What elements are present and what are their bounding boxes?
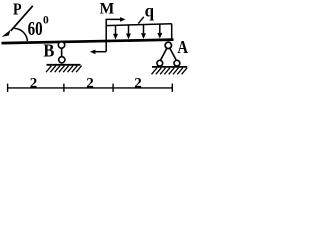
q leader tick: [138, 17, 144, 24]
dimension tick 2: [63, 84, 65, 92]
support A top hinge: [165, 42, 171, 48]
svg-text:60: 60: [28, 18, 43, 40]
dimension line: [8, 87, 173, 89]
support A hatching: [152, 68, 188, 75]
load arrow 2: [128, 25, 130, 35]
moment upper arrowhead: [120, 17, 126, 22]
support A right roller: [174, 60, 180, 66]
load arrow 4: [159, 24, 161, 34]
distributed load top line: [106, 24, 172, 26]
svg-text:P: P: [13, 0, 22, 19]
support A right leg: [170, 48, 177, 61]
support B bottom hinge: [59, 57, 65, 63]
support B top hinge: [58, 42, 64, 48]
moment couple lower arm: [92, 51, 106, 53]
dimension tick 3: [112, 84, 114, 92]
support A left leg: [160, 48, 167, 61]
svg-text:M: M: [100, 0, 115, 17]
beam: [2, 38, 174, 44]
svg-text:2: 2: [30, 76, 38, 92]
load right edge: [171, 24, 173, 39]
svg-text:2: 2: [86, 76, 94, 92]
svg-text:A: A: [177, 37, 188, 57]
support B ground line: [47, 64, 81, 66]
support B rod: [61, 48, 63, 57]
moment lower arrowhead: [90, 50, 96, 55]
force P line: [11, 6, 33, 31]
support A left roller: [157, 60, 163, 66]
svg-text:2: 2: [134, 76, 142, 92]
moment couple upper arm: [106, 19, 123, 51]
svg-text:B: B: [43, 41, 54, 61]
support A ground line: [152, 66, 187, 68]
dimension tick 4: [171, 84, 173, 92]
load arrow 1: [115, 25, 117, 35]
dimension tick 1: [7, 84, 9, 92]
support B hatching: [46, 66, 82, 73]
force P arrowhead: [2, 30, 11, 37]
svg-text:q: q: [145, 1, 154, 21]
svg-text:0: 0: [43, 15, 49, 27]
load arrow 3: [143, 25, 145, 35]
angle arc: [14, 28, 27, 41]
